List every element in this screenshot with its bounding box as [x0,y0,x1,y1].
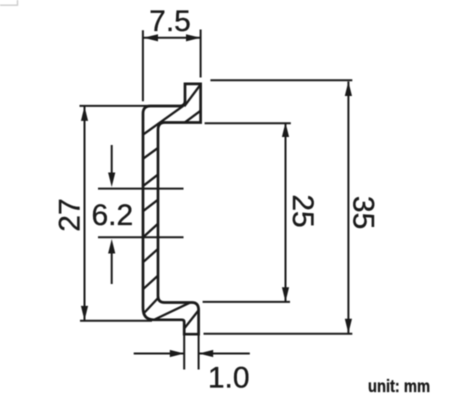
svg-text:unit: mm: unit: mm [368,377,430,396]
arrow 7.5 left [144,34,159,41]
hatch web 5 [143,248,159,263]
slot line upper [98,188,184,190]
arrow 35 top [345,82,352,97]
svg-text:6.2: 6.2 [91,199,133,232]
hatch web 6 [143,275,159,290]
hatch bottom flange long [153,301,194,320]
dimension 35 dim line [347,82,349,334]
hatch web 2 [143,174,159,187]
svg-text:35: 35 [347,196,380,229]
dimension 25 ext line top [205,122,291,124]
svg-text:7.5: 7.5 [149,5,191,38]
dimension 27 ext line bottom [80,320,152,322]
hatch flange long [144,106,184,135]
svg-text:27: 27 [54,198,87,231]
arrow 27 bottom [81,306,88,321]
dimension 27 ext line top [80,105,151,107]
arrow 6.2 up [108,239,115,254]
dimension 1.0 dim line left [134,353,185,355]
DIN rail profile outline [143,84,201,334]
svg-text:1.0: 1.0 [208,361,250,394]
dimension 27 dim line [84,106,86,320]
dimension 6.2 lower arrow shaft [111,245,113,284]
dimension 35 ext line bottom [204,333,353,335]
arrow 7.5 right [186,34,201,41]
dimension 7.5 ext line left [142,30,144,101]
arrow 6.2 down [108,173,115,188]
hatch lip top [184,84,201,107]
faint table corner mark top-left [0,0,18,5]
arrow 27 top [81,106,88,121]
slot line lower [98,236,184,238]
dimension 35 ext line top [210,79,352,81]
dimension 25 dim line [285,123,287,302]
arrow 25 top [282,123,289,138]
arrow 25 bottom [282,287,289,302]
section hatching [143,84,202,329]
dimension 7.5 dim line [144,37,201,39]
hatch web 3 [143,199,159,212]
dimension 1.0 ext line left [183,335,185,370]
dimension 25 ext line bottom [203,301,290,303]
hatch bottom lip [184,310,199,329]
hatch bottom fillet [145,296,161,313]
dimension 7.5 ext line right [200,30,202,78]
svg-text:25: 25 [286,194,319,227]
arrow 35 bottom [345,319,352,334]
dimension 6.2 upper arrow shaft [111,145,113,180]
arrow 1.0 left(points right) [170,350,185,357]
arrow 1.0 right(points left) [199,350,214,357]
hatch web 1 [143,147,159,159]
hatch flange corner [184,110,202,123]
dimension 1.0 dim line right [199,353,250,355]
dimension 1.0 ext line right [198,335,200,370]
hatch web 4 [143,223,159,238]
